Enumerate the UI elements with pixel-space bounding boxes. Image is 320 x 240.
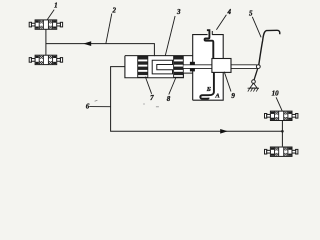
svg-text:4: 4: [226, 8, 231, 16]
speck mid lower: [143, 103, 145, 105]
wheel cylinder 10 (rear lower): [265, 147, 298, 156]
leader 4: [216, 15, 226, 30]
pedal pivot support: [250, 83, 257, 88]
leader 2: [106, 14, 112, 44]
master cylinder piston 7: [138, 56, 148, 77]
junction dot rear tee: [281, 130, 284, 133]
svg-text:Б: Б: [206, 86, 211, 93]
speck near label 6: [95, 100, 98, 101]
leader 1: [47, 10, 54, 20]
rod seal lower on booster wall: [190, 69, 195, 72]
wire: pipe from front cylinders to master cylinder port: [46, 44, 154, 57]
pushrod from master cylinder to pedal: [183, 65, 257, 68]
leader 9: [224, 72, 231, 92]
svg-text:А: А: [214, 93, 220, 100]
speck under label 7: [156, 106, 159, 108]
pedal rod joint: [256, 65, 260, 69]
wire: pipe between front wheel cylinders: [45, 29, 47, 55]
svg-text:7: 7: [150, 94, 154, 102]
svg-text:5: 5: [249, 10, 253, 18]
tick at top edge gap: [211, 31, 213, 35]
master cylinder piston 8: [174, 56, 184, 77]
booster diaphragm lower: [200, 72, 214, 98]
leader 3: [165, 16, 175, 56]
flow arrow right on rear pipe: [220, 129, 228, 134]
svg-text:8: 8: [167, 95, 171, 103]
wheel cylinder (rear upper): [265, 111, 298, 120]
master cylinder 3 body: [125, 56, 193, 78]
svg-text:6: 6: [86, 103, 90, 111]
wheel cylinder (front lower): [29, 55, 62, 64]
wire: pipe between rear wheel cylinders: [281, 121, 283, 147]
leader 10: [276, 97, 282, 111]
pedal pivot pin: [252, 80, 256, 84]
leader 6: [89, 106, 110, 108]
booster box 4: [193, 35, 224, 101]
flow arrow left on front pipe: [83, 41, 91, 46]
leader 8: [169, 78, 176, 95]
svg-text:2: 2: [112, 6, 117, 14]
svg-text:10: 10: [272, 90, 280, 98]
pushrod fork in master cylinder: [152, 60, 172, 74]
svg-text:9: 9: [231, 92, 235, 100]
booster diaphragm upper: [205, 30, 214, 58]
ground hatching under pivot: [248, 87, 259, 89]
control valve 9: [212, 59, 231, 73]
wire: pipe from master cylinder to rear line: [111, 67, 283, 132]
svg-text:3: 3: [176, 8, 181, 16]
svg-text:1: 1: [54, 2, 58, 10]
pedal 5 arm and pad: [259, 30, 280, 64]
rod seal upper on booster wall: [190, 62, 195, 65]
leader 7: [145, 77, 151, 94]
wheel cylinder 1 (front upper): [29, 20, 62, 29]
leader 5: [252, 17, 261, 38]
